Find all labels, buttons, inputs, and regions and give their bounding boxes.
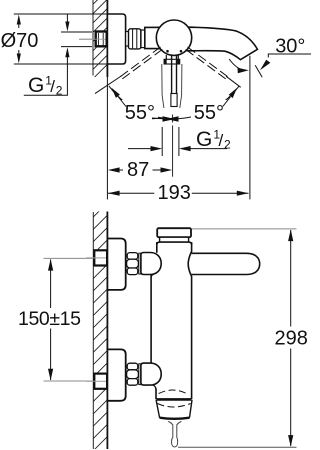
55° dimension arc — [109, 86, 239, 119]
escutcheon (top view) — [107, 14, 125, 64]
55° dashed swing lines (double dashed) — [95, 47, 241, 94]
G 1/2 (bottom) extension lines — [161, 127, 163, 156]
faucet body (side view) white shape — [151, 242, 192, 399]
30° label and leader — [255, 36, 311, 78]
outer grip silhouette lines — [162, 64, 164, 108]
indicator dots — [166, 50, 169, 53]
body outline right with lever fillet — [188, 242, 191, 399]
svg-text:/: / — [50, 77, 55, 96]
neck below circle — [165, 55, 167, 59]
inner grip lines — [171, 55, 173, 94]
G 1/2 (bottom) dimension arrows — [128, 146, 227, 151]
hex nut bottom (side view) — [127, 363, 139, 385]
spout swivel arc with arrow — [229, 59, 249, 73]
union ball top (side view) — [141, 253, 161, 275]
spout tip extension line — [249, 56, 251, 200]
svg-text:55°: 55° — [194, 102, 224, 124]
svg-text:193: 193 — [158, 182, 191, 204]
55° end arrows on dashed lines — [112, 88, 238, 107]
supply nipple bottom (side view) — [86, 374, 107, 389]
washer bottom union — [139, 364, 141, 385]
G 1/2 lower arrow (points up) + leader to label — [65, 47, 69, 95]
escutcheon top (side view) — [107, 239, 125, 290]
hex nut top (side view) — [127, 253, 139, 275]
G 1/2 upper arrow (points down) — [65, 15, 69, 32]
step between escutcheon and nut — [126, 32, 129, 47]
ring under cap — [160, 237, 189, 242]
298 bottom extension line — [178, 446, 297, 448]
tip of lever — [171, 94, 177, 107]
G 1/2 label (top-left) — [24, 74, 68, 98]
lever handle (plan, pointing at viewer) — [162, 55, 182, 108]
svg-text:298: 298 — [275, 327, 308, 349]
87 dimension — [108, 159, 172, 181]
wall face extension line down to 193 dimension — [106, 77, 108, 199]
150±15 dimension line — [18, 259, 81, 381]
wall face line (top view, thick) — [106, 0, 108, 77]
faucet body (top view, horizontal cylinder) — [145, 27, 258, 60]
supply pipe centerline (top view, grey) — [79, 38, 106, 40]
Ø70 arrows — [17, 15, 21, 64]
svg-text:/: / — [219, 131, 224, 150]
washer after nut — [141, 30, 145, 48]
water drop from outlet — [168, 421, 181, 447]
body outline left — [156, 242, 158, 253]
193 dimension — [108, 182, 249, 204]
supply nipple in wall (top view) — [80, 32, 107, 47]
wall face line (side view) — [106, 212, 108, 450]
body shoulder — [157, 242, 192, 245]
cartridge dome circle (top view) — [156, 20, 191, 55]
hex nut (top view) — [129, 29, 141, 49]
G 1/2 extension lines (top view pipe) — [61, 31, 92, 33]
supply nipple top (side view) — [86, 250, 107, 265]
svg-text:2: 2 — [224, 138, 231, 152]
svg-text:Ø70: Ø70 — [1, 30, 39, 52]
wall (side view) — [80, 173, 125, 450]
white masks for 55° texts — [122, 100, 158, 121]
washer top union — [139, 253, 141, 274]
svg-text:87: 87 — [127, 159, 149, 181]
svg-text:G: G — [196, 128, 212, 151]
union ball bottom (side view) — [141, 363, 161, 385]
Ø70 extension lines — [14, 13, 107, 15]
wall left edge (top view) — [92, 0, 94, 76]
298 top extension line (grey) — [191, 228, 297, 230]
lever (side view) — [192, 253, 260, 274]
298 dimension line — [275, 229, 308, 446]
150±15 extension lines (grey) — [44, 257, 95, 259]
wall left edge (side view) — [92, 212, 94, 449]
svg-text:55°: 55° — [125, 102, 155, 124]
lever centerline (extension) — [172, 115, 174, 123]
svg-text:2: 2 — [56, 84, 63, 98]
aerator housing (side view) — [156, 390, 192, 419]
crossing arrows at lever centerline — [152, 116, 179, 122]
collar ring with thick side tabs — [164, 59, 180, 64]
top cap (side view) — [157, 228, 191, 237]
escutcheon bottom (side view) — [107, 349, 125, 400]
svg-text:150±15: 150±15 — [18, 308, 81, 330]
svg-text:G: G — [28, 74, 44, 97]
G 1/2 label (plan) — [196, 128, 231, 152]
